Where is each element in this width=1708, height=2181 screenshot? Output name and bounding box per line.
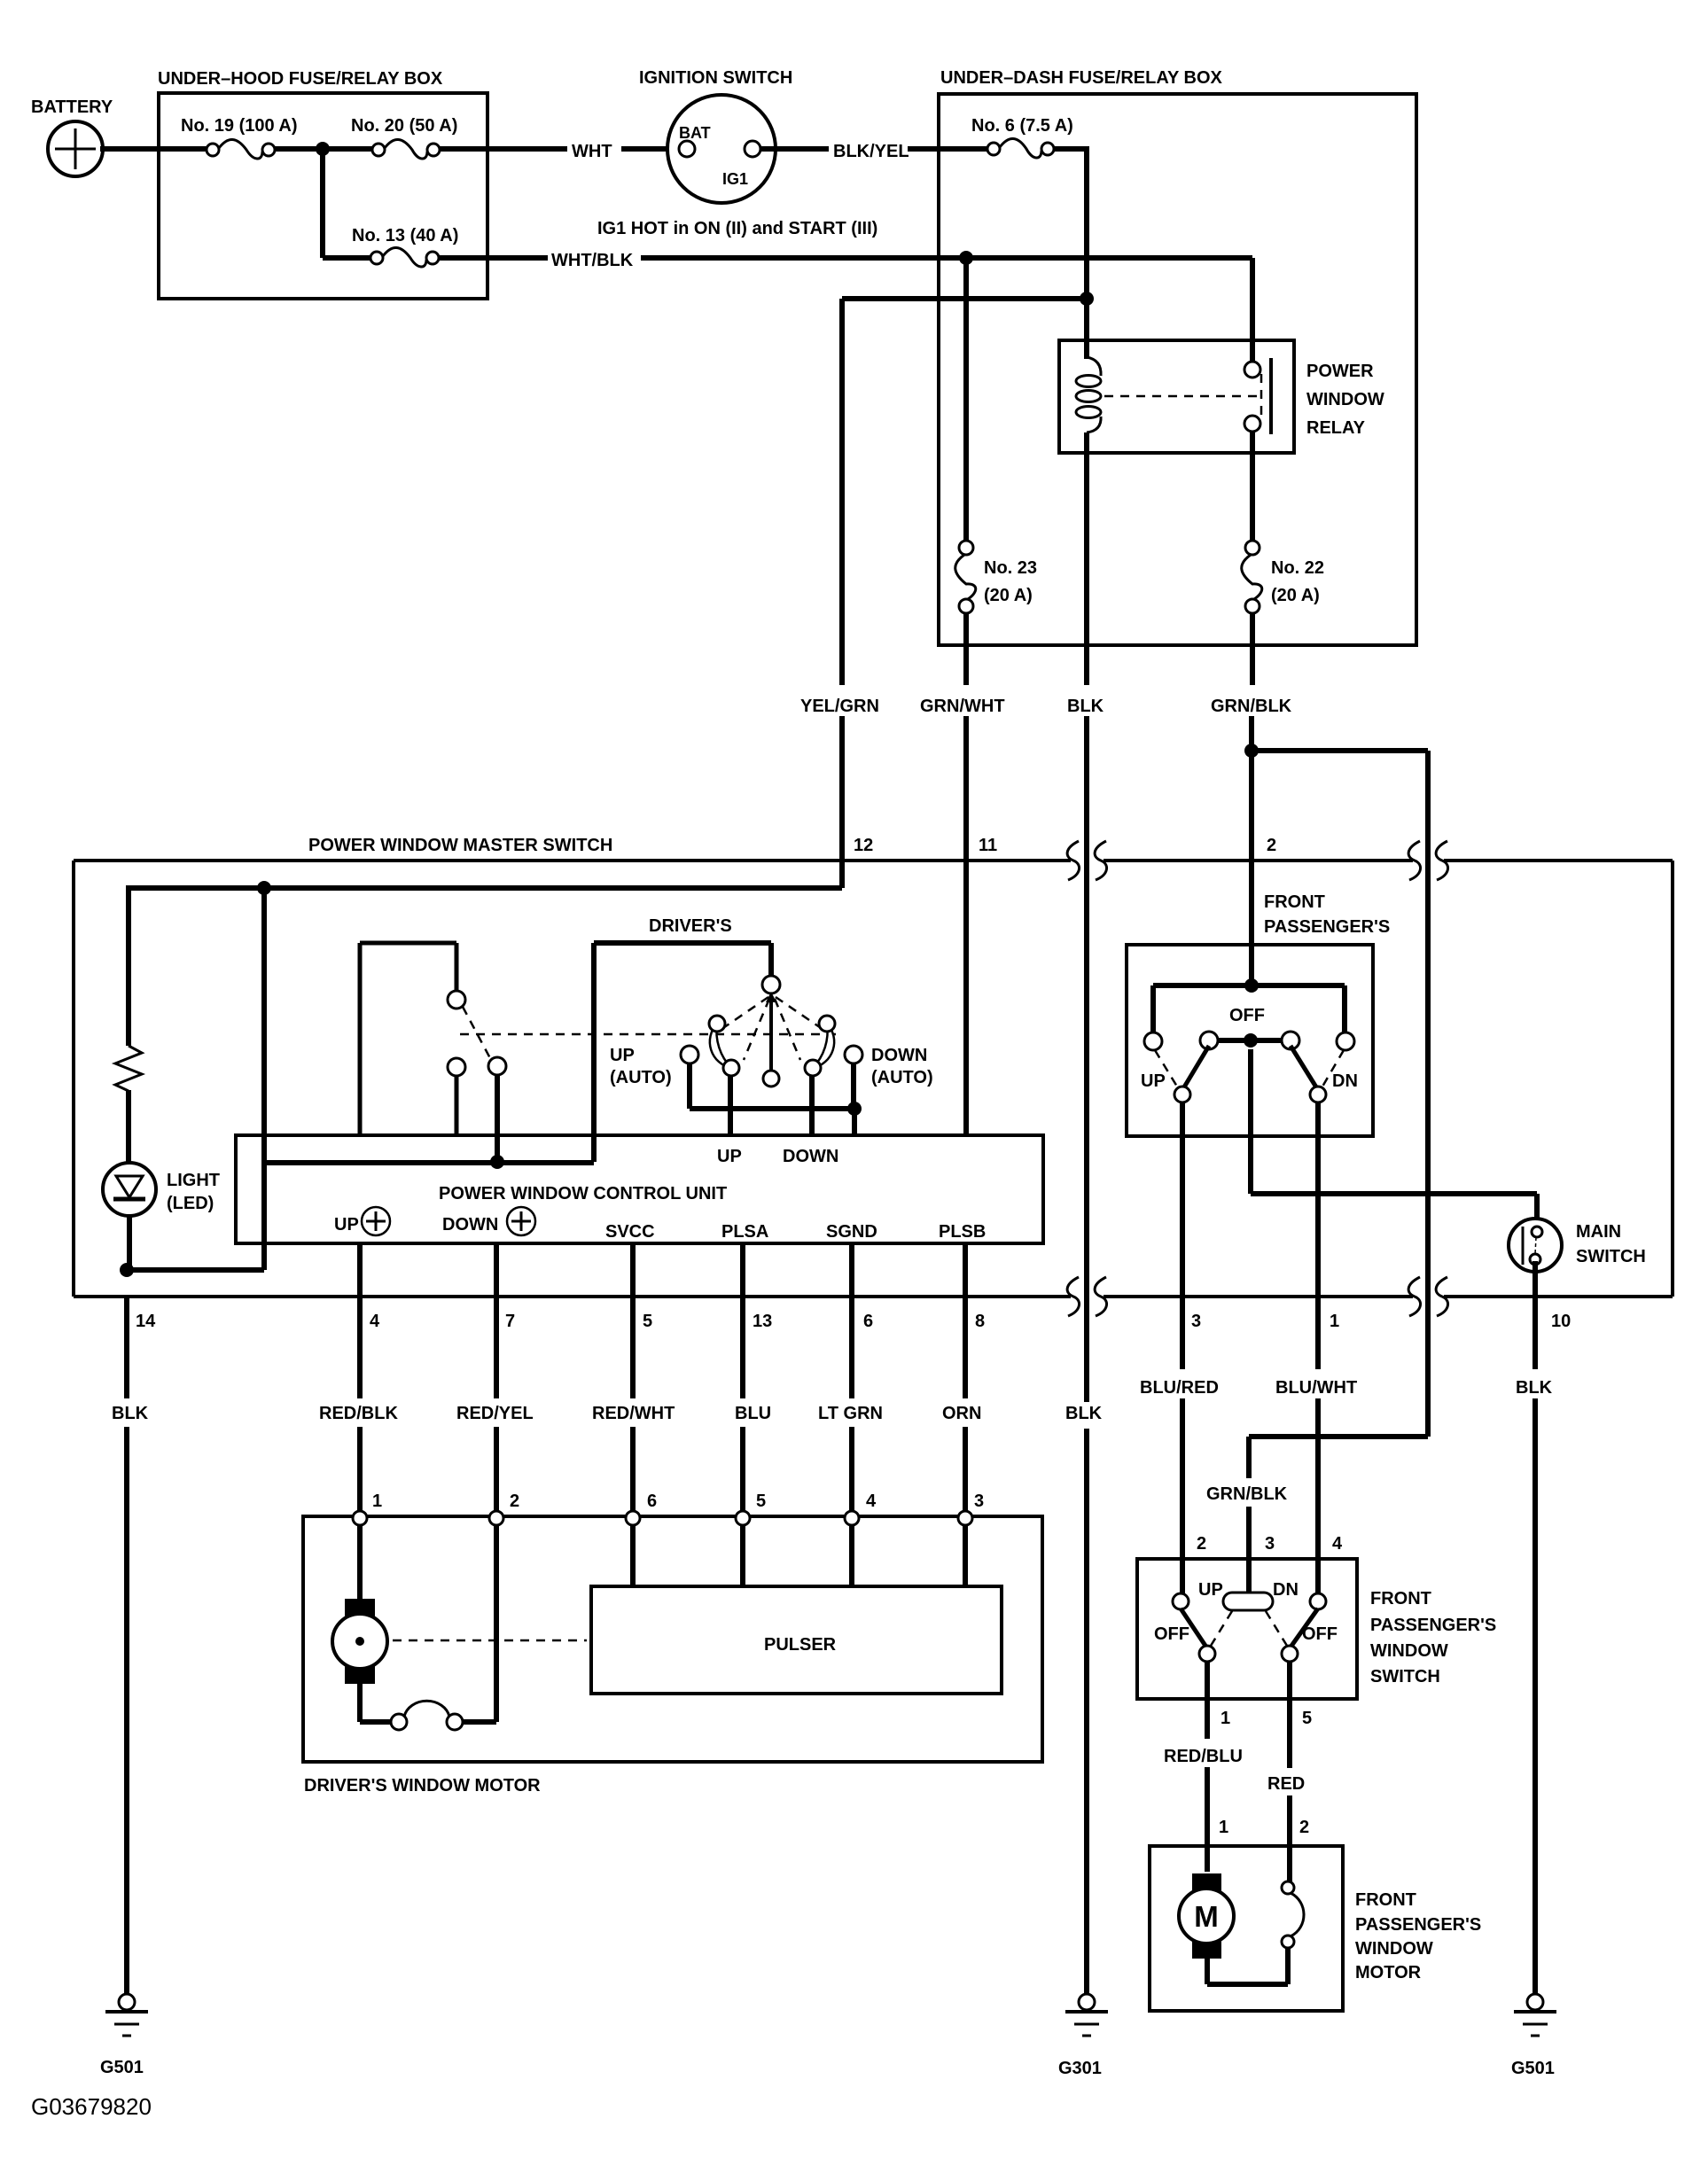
svg-text:BLK: BLK [1065,1404,1103,1423]
wire GRN/BLK [1250,612,1255,685]
label UP+ [334,1207,390,1235]
svg-text:BLU: BLU [735,1404,771,1423]
svg-text:4: 4 [1332,1534,1343,1554]
label DOWN+ [442,1207,535,1235]
svg-text:PASSENGER'S: PASSENGER'S [1355,1915,1481,1935]
svg-text:DOWN: DOWN [871,1046,927,1065]
under-dash fuse/relay box [939,94,1416,645]
svg-text:LIGHT: LIGHT [167,1171,220,1190]
wire auto common [687,1063,692,1109]
wire fp motor loop [1285,1947,1291,1984]
fpws contacts [1173,1593,1189,1609]
wire pin5 to pulser [740,1525,745,1586]
svg-text:BAT: BAT [679,124,711,142]
svg-text:No. 6 (7.5 A): No. 6 (7.5 A) [971,116,1073,136]
svg-text:6: 6 [647,1492,657,1511]
wire pin1 to motor [357,1525,363,1601]
svg-text:UP: UP [717,1147,742,1166]
svg-text:BLU/WHT: BLU/WHT [1275,1378,1357,1398]
right crescent contact [805,1016,835,1076]
dashed linkage bar [460,1033,838,1036]
left crescent contact [709,1016,739,1076]
svg-text:MOTOR: MOTOR [1355,1963,1422,1982]
svg-text:PLSA: PLSA [721,1222,768,1242]
svg-text:SWITCH: SWITCH [1370,1667,1440,1686]
svg-text:(20 A): (20 A) [1271,586,1320,605]
svg-text:11: 11 [979,836,997,855]
svg-text:WHT: WHT [572,142,612,161]
fpws blade up [1181,1608,1207,1648]
driver's motor M1 [332,1599,387,1684]
svg-text:RED/YEL: RED/YEL [456,1404,534,1423]
svg-text:WHT/BLK: WHT/BLK [551,251,634,270]
fuse No.20 (50 A) [372,139,440,159]
svg-text:2: 2 [510,1492,519,1511]
svg-text:GRN/BLK: GRN/BLK [1211,697,1292,716]
svg-text:G03679820: G03679820 [31,2093,152,2120]
svg-text:8: 8 [975,1312,985,1331]
wire pin4 RED/BLK [357,1243,363,1398]
wire pin4 to pulser [849,1525,854,1586]
ground G301 [1065,1994,1108,2036]
svg-text:DOWN: DOWN [783,1147,838,1166]
fp bracket wires [1153,983,1345,988]
svg-text:RED/BLU: RED/BLU [1164,1747,1243,1766]
svg-text:LT GRN: LT GRN [818,1404,883,1423]
dashed link up-switch [463,1007,491,1060]
ground G501 [1514,1994,1556,2036]
svg-text:UNDER–DASH FUSE/RELAY BOX: UNDER–DASH FUSE/RELAY BOX [940,68,1223,88]
svg-text:3: 3 [1191,1312,1201,1331]
svg-text:SWITCH: SWITCH [1576,1247,1646,1266]
wire WHT to ignition BAT [621,146,679,152]
fp blade up [1182,1046,1209,1090]
svg-text:(AUTO): (AUTO) [871,1068,933,1087]
fp motor M2 [1179,1873,1234,1959]
svg-text:RED: RED [1267,1774,1305,1794]
motor thermal breaker [391,1701,463,1730]
svg-text:WINDOW: WINDOW [1306,390,1384,409]
wire GRN/WHT to pin 11 [963,612,969,685]
contact circle up-switch bottom [448,1058,465,1076]
svg-text:IG1: IG1 [722,170,748,188]
wire fuse20 to WHT label [439,146,567,152]
svg-text:WINDOW: WINDOW [1370,1641,1448,1661]
svg-text:UP: UP [1198,1580,1223,1600]
svg-text:DRIVER'S WINDOW MOTOR: DRIVER'S WINDOW MOTOR [304,1776,541,1795]
wire junction down to fuse 13 [320,149,325,258]
wire resistor to LED [126,1090,131,1164]
svg-text:OFF: OFF [1154,1624,1189,1644]
svg-text:4: 4 [866,1492,877,1511]
svg-text:RELAY: RELAY [1306,418,1366,438]
wire ignition to BLK/YEL label [760,146,829,152]
wire pin6 LT GRN [849,1243,854,1398]
wire to resistor [126,885,131,1046]
svg-text:UP: UP [1141,1071,1166,1091]
svg-text:YEL/GRN: YEL/GRN [800,697,879,716]
svg-text:RED/BLK: RED/BLK [319,1404,398,1423]
contact circle driver up relay [488,1057,506,1075]
break marks GRN/BLK bottom [1408,1277,1420,1316]
svg-text:PASSENGER'S: PASSENGER'S [1370,1616,1496,1635]
svg-text:OFF: OFF [1302,1624,1338,1644]
svg-text:FRONT: FRONT [1264,892,1325,912]
wire fuse13 to WHT/BLK label [438,255,548,261]
break marks BLK top [1067,841,1079,880]
svg-text:BATTERY: BATTERY [31,97,113,117]
wire loop to control unit [127,1267,264,1273]
junction node GRN/BLK branch [1244,744,1259,758]
junction node auto common [847,1102,862,1116]
wire GRN/BLK right branch [1252,748,1428,753]
svg-text:G501: G501 [100,2058,144,2077]
svg-text:10: 10 [1551,1312,1571,1331]
fuse No.23 (20 A) [955,541,976,613]
svg-text:DN: DN [1273,1580,1299,1600]
wire pin3 to pulser [963,1525,968,1586]
ignition switch [667,95,776,203]
svg-text:1: 1 [1221,1709,1230,1728]
svg-text:1: 1 [1330,1312,1339,1331]
svg-text:UP: UP [334,1215,359,1235]
svg-text:POWER WINDOW CONTROL UNIT: POWER WINDOW CONTROL UNIT [439,1184,727,1203]
svg-text:No. 19 (100 A): No. 19 (100 A) [181,116,298,136]
svg-text:ORN: ORN [942,1404,981,1423]
wire breaker to pin2 [462,1719,496,1725]
fuse No.13 (40 A) [370,247,439,267]
svg-text:SGND: SGND [826,1222,877,1242]
wire YEL/GRN branch [842,296,1087,301]
fuse No.22 (20 A) [1242,541,1262,613]
power window control unit box [236,1135,1043,1243]
svg-text:UP: UP [610,1046,635,1065]
svg-text:5: 5 [1302,1709,1312,1728]
front passenger's window switch box [1137,1559,1357,1699]
wire fuse6 to relay coil [1053,146,1087,152]
driver switch pivot [762,976,780,993]
svg-text:BLK: BLK [112,1404,149,1423]
svg-text:DN: DN [1332,1071,1358,1091]
svg-text:DOWN: DOWN [442,1215,498,1235]
svg-text:PASSENGER'S: PASSENGER'S [1264,917,1390,937]
wire main switch to pin 10 [1533,1261,1538,1369]
svg-text:5: 5 [756,1492,766,1511]
svg-text:No. 20 (50 A): No. 20 (50 A) [351,116,457,136]
svg-text:7: 7 [505,1312,515,1331]
svg-text:UNDER–HOOD FUSE/RELAY BOX: UNDER–HOOD FUSE/RELAY BOX [158,69,443,89]
wire pin7 RED/YEL [494,1243,499,1398]
svg-text:FRONT: FRONT [1370,1589,1431,1608]
wire relay to fuse 22 [1250,432,1255,542]
svg-text:5: 5 [643,1312,652,1331]
svg-text:(20 A): (20 A) [984,586,1033,605]
svg-text:BLU/RED: BLU/RED [1140,1378,1219,1398]
LED light [103,1163,156,1216]
wire pin5 RED/WHT [630,1243,636,1398]
wire pin12 feed bus [129,885,842,891]
wire RED/BLU [1205,1662,1210,1739]
junction node contact feed [490,1155,504,1169]
svg-text:2: 2 [1267,836,1276,855]
wire DOWN contact to control unit [809,1076,815,1135]
svg-text:BLK/YEL: BLK/YEL [833,142,909,161]
wire BLK relay coil to G301 [1084,432,1089,685]
under-hood fuse/relay box [159,93,487,299]
break marks GRN/BLK top [1408,841,1420,880]
wire fp common to main switch [1248,1049,1253,1194]
power window master switch box [74,861,1673,1297]
svg-text:FRONT: FRONT [1355,1890,1416,1910]
svg-text:3: 3 [1265,1534,1275,1554]
junction node YEL/GRN branch [1080,292,1094,306]
driver switch dashed fan [718,997,826,1060]
motor terminals [353,1511,972,1525]
fp dashed links [1155,1050,1177,1087]
fp motor commutator contact [1282,1881,1304,1948]
wire motor to breaker [357,1682,363,1722]
wire UP contact to control unit [728,1076,733,1135]
svg-text:14: 14 [136,1312,156,1331]
svg-text:BLK: BLK [1067,697,1104,716]
svg-text:GRN/BLK: GRN/BLK [1206,1484,1288,1504]
relay coil [1076,357,1101,432]
wire pin8 ORN [963,1243,968,1398]
ground G501 [105,1994,148,2036]
wire GRN/WHT from WHT/BLK [959,251,973,265]
fp common bar [1218,1038,1282,1043]
svg-text:RED/WHT: RED/WHT [592,1404,675,1423]
terminal UP (AUTO) [681,1046,698,1063]
main switch [1509,1219,1562,1272]
fpws blade dn [1290,1608,1318,1648]
wire fp dn to pin 1 [1315,1102,1321,1369]
motor linkage dashed [393,1640,587,1642]
wire lever bracket [591,943,597,1162]
svg-text:No. 23: No. 23 [984,558,1037,578]
resistor [115,1046,142,1091]
fuse No.19 (100 A) [207,139,275,159]
wire pin6 to pulser [630,1525,636,1586]
front passenger switch box [1127,945,1373,1136]
contact circle up-switch top [448,991,465,1009]
svg-text:(LED): (LED) [167,1194,214,1213]
svg-text:M: M [1194,1900,1219,1933]
wire RED [1287,1662,1292,1768]
svg-text:6: 6 [863,1312,873,1331]
svg-text:GRN/WHT: GRN/WHT [920,697,1005,716]
svg-text:G301: G301 [1058,2059,1102,2078]
battery [48,121,103,176]
junction node bus/lever [257,881,271,895]
wire WHT/BLK down to relay contact [1250,258,1255,363]
svg-text:4: 4 [370,1312,380,1331]
pulser box [591,1586,1002,1694]
svg-text:12: 12 [854,836,873,855]
svg-text:POWER WINDOW MASTER SWITCH: POWER WINDOW MASTER SWITCH [308,836,612,855]
svg-text:2: 2 [1299,1818,1309,1837]
svg-text:2: 2 [1197,1534,1206,1554]
svg-text:G501: G501 [1511,2059,1555,2078]
fpws rocker [1223,1593,1273,1610]
junction node fp bracket [1244,978,1259,993]
wire WHT/BLK to relay [641,255,1252,261]
terminal DOWN (AUTO) [845,1046,862,1063]
svg-text:13: 13 [753,1312,772,1331]
fuse No.6 (7.5 A) [987,138,1054,158]
relay contact [1244,358,1271,434]
svg-text:BLK: BLK [1516,1378,1553,1398]
driver switch lever [763,992,779,1087]
svg-text:3: 3 [974,1492,984,1511]
wire fp up to pin 3 [1180,1102,1185,1369]
fp blade dn [1291,1046,1318,1090]
svg-text:PLSB: PLSB [939,1222,986,1242]
wire BLK/YEL to fuse 6 [908,146,987,152]
relay linkage dashed [1104,395,1257,398]
svg-text:No. 13 (40 A): No. 13 (40 A) [352,226,458,245]
wire bus down to control loop [261,888,267,1163]
power window relay box [1059,340,1294,453]
svg-text:PULSER: PULSER [764,1635,837,1655]
wire pin13 BLU [740,1243,745,1398]
wire junction to contact [495,1074,500,1162]
svg-text:1: 1 [1219,1818,1228,1837]
svg-text:POWER: POWER [1306,362,1374,381]
driver's window motor box [303,1516,1042,1762]
junction node LED/control loop [120,1263,134,1277]
wire pin14 BLK to G501 [124,1297,129,1398]
svg-text:(AUTO): (AUTO) [610,1068,672,1087]
svg-text:MAIN: MAIN [1576,1222,1621,1242]
svg-text:IGNITION SWITCH: IGNITION SWITCH [639,68,792,88]
wire fuse19 to fuse20 [274,146,373,152]
break marks BLK bottom [1067,1277,1079,1316]
wire up-switch to control unit [455,1075,459,1135]
front passenger's window motor box [1150,1846,1343,2011]
svg-text:1: 1 [372,1492,382,1511]
svg-text:WINDOW: WINDOW [1355,1939,1433,1959]
svg-text:No. 22: No. 22 [1271,558,1324,578]
svg-text:SVCC: SVCC [605,1222,655,1242]
fp contact circles [1144,1032,1162,1050]
junction node fuse19/fuse20/fuse13 [316,142,330,156]
svg-text:DRIVER'S: DRIVER'S [649,916,732,936]
wire LED to pin 14 [127,1215,132,1270]
svg-text:IG1 HOT in ON (II) and START (: IG1 HOT in ON (II) and START (III) [597,219,877,238]
driver up-switch bracket [358,943,363,1135]
wire battery to fuse 19 [100,146,207,152]
fpws dashed links [1211,1611,1232,1646]
svg-text:OFF: OFF [1229,1006,1265,1025]
